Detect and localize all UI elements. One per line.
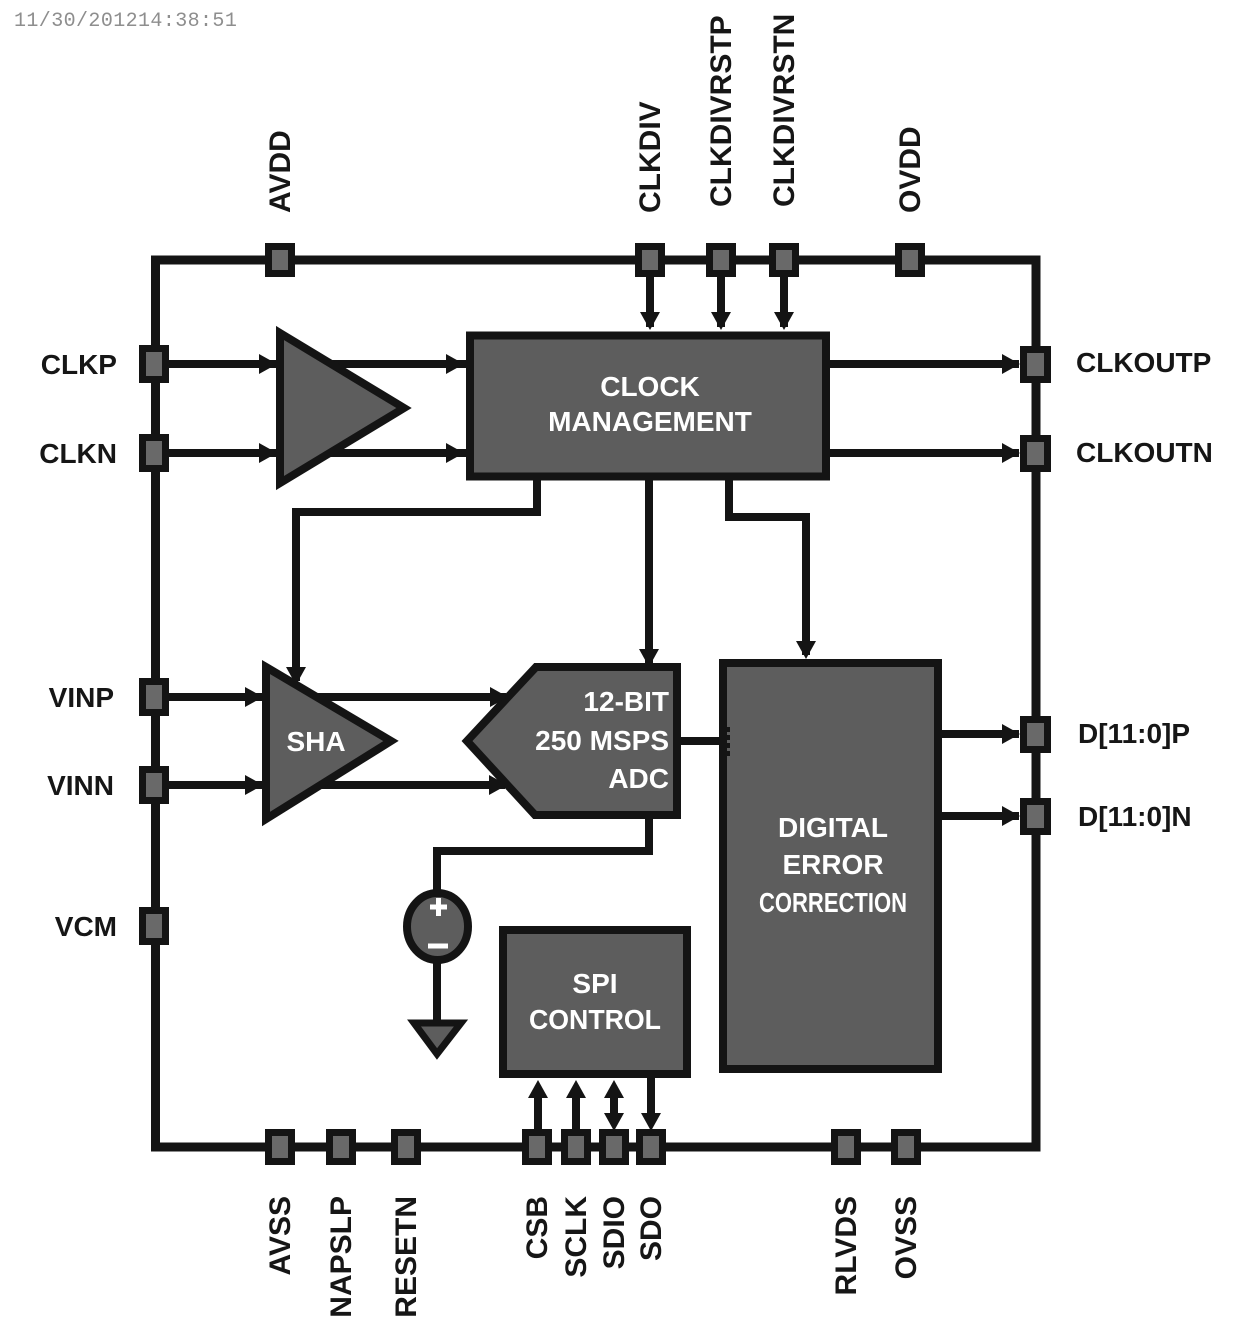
arrowhead into D[11:0]P pin (1002, 724, 1020, 744)
pin CSB (526, 1133, 549, 1162)
svg-text:CSB: CSB (521, 1196, 554, 1259)
wire VINP through SHA to ADC (168, 693, 506, 701)
wire digital error correction to D[11:0]P pin (942, 730, 1019, 738)
arrowhead CLKN into clock management (446, 443, 464, 463)
arrowhead VINN into SHA (245, 775, 263, 795)
svg-text:SPI: SPI (572, 968, 617, 999)
pin CLKDIV (639, 247, 662, 274)
wire clock management to ADC (645, 480, 653, 663)
arrowhead CLKP into buffer (259, 354, 277, 374)
pin AVSS (269, 1133, 292, 1162)
pin AVDD (269, 247, 292, 274)
pin CLKN (143, 438, 166, 469)
wire clock management to digital error correction (729, 480, 806, 655)
svg-text:ADC: ADC (608, 763, 669, 794)
chip outer border (156, 260, 1037, 1147)
arrowhead VINP into ADC (490, 687, 508, 707)
svg-text:MANAGEMENT: MANAGEMENT (548, 406, 752, 437)
pin VINP (143, 682, 166, 713)
arrowhead CLKDIVRSTN into clock management (774, 312, 794, 330)
pin CLKOUTN (1024, 439, 1048, 469)
svg-text:11/30/201214:38:51: 11/30/201214:38:51 (14, 10, 237, 33)
wire digital error correction to D[11:0]N pin (942, 812, 1019, 820)
wire VINN through SHA to ADC (168, 781, 505, 789)
pin CLKOUTP (1024, 350, 1048, 380)
wire SCLK to SPI control (572, 1092, 580, 1133)
wire CLKDIV into clock management (646, 270, 654, 327)
voltage source (407, 893, 468, 960)
svg-text:NAPSLP: NAPSLP (325, 1196, 358, 1318)
svg-text:VCM: VCM (55, 911, 117, 942)
svg-text:CLOCK: CLOCK (600, 371, 700, 402)
svg-text:RESETN: RESETN (390, 1196, 423, 1318)
svg-text:SDIO: SDIO (598, 1196, 631, 1269)
clock management block (470, 336, 826, 477)
svg-text:CORRECTION: CORRECTION (759, 887, 907, 918)
clock input buffer amplifier (280, 333, 404, 483)
svg-text:D[11:0]N: D[11:0]N (1078, 801, 1192, 832)
pin SDO (640, 1133, 663, 1162)
arrowhead SDO to pin (641, 1113, 661, 1131)
pin OVDD (899, 247, 922, 274)
svg-text:SCLK: SCLK (560, 1196, 593, 1278)
svg-text:AVDD: AVDD (264, 130, 297, 213)
svg-text:OVDD: OVDD (894, 126, 927, 213)
wire clock management to CLKOUTN pin (830, 449, 1019, 457)
svg-text:CLKDIV: CLKDIV (634, 101, 667, 213)
arrowhead CLKDIV into clock management (640, 312, 660, 330)
voltage source minus sign (428, 944, 448, 949)
arrowhead into D[11:0]N pin (1002, 806, 1020, 826)
svg-text:CONTROL: CONTROL (529, 1004, 661, 1035)
arrowhead CLKP into clock management (446, 354, 464, 374)
arrowhead clock management into ADC (639, 649, 659, 667)
pin SDIO (603, 1133, 626, 1162)
pin VINN (143, 770, 166, 801)
svg-text:OVSS: OVSS (890, 1196, 923, 1279)
SPI control block (503, 930, 687, 1074)
wire CLKN to clock buffer and clock management (168, 449, 466, 457)
ground symbol (414, 1023, 461, 1054)
svg-text:CLKP: CLKP (41, 349, 117, 380)
wire SDO from SPI control (647, 1078, 655, 1120)
arrowhead VINP into SHA (245, 687, 263, 707)
pin CLKP (143, 349, 166, 380)
digital error correction block (723, 663, 938, 1069)
svg-text:CLKN: CLKN (39, 438, 117, 469)
svg-text:12-BIT: 12-BIT (583, 686, 669, 717)
pin CLKDIVRSTN (773, 247, 796, 274)
pin VCM (143, 911, 166, 942)
svg-text:ERROR: ERROR (782, 849, 883, 880)
pin RLVDS (835, 1133, 858, 1162)
pin D[11:0]P (1024, 720, 1048, 750)
svg-text:VINN: VINN (47, 770, 114, 801)
bus width tick dots at digital error correction input (722, 727, 730, 756)
arrowhead clock management into digital error correction (796, 641, 816, 659)
pin SCLK (565, 1133, 588, 1162)
svg-text:SHA: SHA (286, 726, 345, 757)
wire CLKDIVRSTP into clock management (717, 270, 725, 327)
wire CSB to SPI control (534, 1092, 542, 1133)
voltage source plus sign (430, 898, 447, 916)
svg-text:CLKDIVRSTN: CLKDIVRSTN (768, 14, 801, 207)
pin RESETN (395, 1133, 418, 1162)
pin NAPSLP (330, 1133, 353, 1162)
wire CLKP to clock buffer and clock management (168, 360, 466, 368)
wire clock management to SHA (296, 480, 537, 681)
svg-text:RLVDS: RLVDS (830, 1196, 863, 1295)
wire CLKDIVRSTN into clock management (780, 270, 788, 327)
pin OVSS (895, 1133, 918, 1162)
wire ADC to voltage source (437, 815, 649, 893)
svg-text:VINP: VINP (49, 682, 114, 713)
svg-text:250 MSPS: 250 MSPS (535, 725, 669, 756)
wire ADC to digital error correction (677, 737, 719, 745)
ADC block 12-bit 250 MSPS (467, 667, 677, 815)
svg-text:CLKOUTP: CLKOUTP (1076, 347, 1211, 378)
arrowhead CSB into SPI control (528, 1080, 548, 1098)
svg-text:DIGITAL: DIGITAL (778, 812, 888, 843)
svg-text:CLKOUTN: CLKOUTN (1076, 437, 1213, 468)
arrowhead SCLK into SPI control (566, 1080, 586, 1098)
svg-text:SDO: SDO (635, 1196, 668, 1261)
svg-text:AVSS: AVSS (264, 1196, 297, 1275)
arrowhead SDIO into SPI control (604, 1080, 624, 1098)
arrowhead VINN into ADC (489, 775, 507, 795)
wire clock management to CLKOUTP pin (830, 360, 1019, 368)
SHA amplifier (266, 667, 391, 819)
pin CLKDIVRSTP (710, 247, 733, 274)
arrowhead clock management into SHA (286, 667, 306, 685)
svg-text:D[11:0]P: D[11:0]P (1078, 718, 1190, 749)
arrowhead into CLKOUTN pin (1002, 443, 1020, 463)
arrowhead SDIO to pin (604, 1113, 624, 1131)
wire SDIO to SPI control (610, 1090, 618, 1122)
arrowhead into CLKOUTP pin (1002, 354, 1020, 374)
arrowhead CLKDIVRSTP into clock management (711, 312, 731, 330)
arrowhead CLKN into buffer (259, 443, 277, 463)
pin D[11:0]N (1024, 802, 1048, 832)
wire voltage source to ground (433, 960, 441, 1025)
svg-text:CLKDIVRSTP: CLKDIVRSTP (705, 15, 738, 207)
